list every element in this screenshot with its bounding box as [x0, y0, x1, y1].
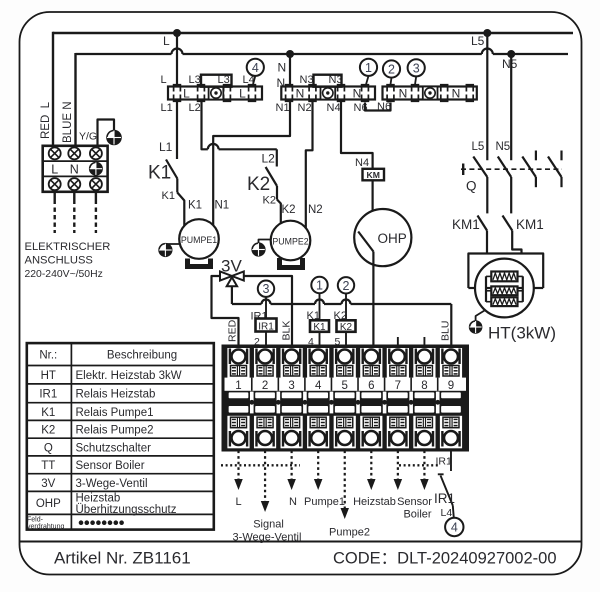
svg-text:BLUE N: BLUE N	[62, 101, 74, 143]
heater element bus bars	[485, 276, 487, 302]
legend table	[27, 343, 214, 529]
svg-text:Pumpe1: Pumpe1	[304, 496, 345, 508]
relay coil K2	[337, 320, 356, 332]
terminal 9 of strip X2	[440, 348, 462, 448]
svg-text:Q: Q	[44, 442, 53, 454]
svg-text:3: 3	[413, 61, 420, 75]
ground earth symbol at Y/G	[107, 131, 121, 145]
svg-text:IR1: IR1	[39, 389, 57, 401]
svg-text:N1: N1	[215, 200, 230, 212]
svg-text:N: N	[399, 87, 408, 101]
svg-text:Elektr. Heizstab 3kW: Elektr. Heizstab 3kW	[76, 370, 182, 382]
svg-text:7: 7	[395, 380, 401, 392]
wire K2 to PUMPE2	[277, 200, 281, 225]
svg-text:N5: N5	[502, 57, 518, 71]
wire L drop to strip	[176, 33, 178, 87]
svg-text:K2: K2	[340, 322, 353, 333]
svg-text:CODE：DLT-20240927002-00: CODE：DLT-20240927002-00	[333, 550, 557, 568]
wire HT feed loop	[468, 254, 543, 289]
ground symbol in block	[90, 163, 102, 175]
svg-text:OHP: OHP	[36, 498, 61, 510]
net circle 1 above N6	[360, 59, 377, 76]
connector circle in N strip A	[321, 87, 336, 100]
net circle 1 mid	[311, 277, 327, 293]
title block separator	[20, 541, 582, 543]
wire K1 coil to terminal 4	[319, 332, 321, 346]
svg-text:L5: L5	[471, 34, 485, 48]
contactor contact KM1 a	[478, 216, 488, 231]
svg-text:N1: N1	[276, 102, 290, 114]
wire RED L vertical from terminal block	[52, 32, 54, 146]
field lead from terminal 1	[237, 451, 239, 481]
svg-text:IR1: IR1	[434, 491, 455, 506]
relay contact IR1	[438, 473, 444, 475]
net circle 2 above strip B	[383, 60, 400, 77]
svg-text:ANSCHLUSS: ANSCHLUSS	[25, 255, 93, 267]
svg-text:Überhitzungsschutz: Überhitzungsschutz	[76, 504, 177, 516]
svg-text:1: 1	[316, 279, 323, 293]
svg-text:Relais Pumpe1: Relais Pumpe1	[76, 407, 154, 419]
relay contact K1	[166, 160, 177, 179]
breaker Q dashed linkage bar	[462, 164, 464, 176]
svg-text:1: 1	[365, 61, 372, 75]
ground earth at pump2	[252, 243, 265, 256]
OHP internal contact blade	[358, 232, 373, 252]
svg-text:Nr.:: Nr.:	[39, 350, 57, 362]
strip X2 junction dots between modules	[249, 392, 254, 414]
wire N2 from N strip to PUMPE2	[306, 100, 313, 229]
wire IR1 coil to terminal 2	[265, 332, 267, 346]
svg-text:Heizstab: Heizstab	[353, 496, 396, 508]
svg-text:Boiler: Boiler	[403, 509, 431, 521]
svg-text:L: L	[51, 162, 58, 176]
svg-text:Y/G: Y/G	[79, 131, 97, 143]
svg-text:BLK: BLK	[281, 321, 293, 341]
svg-text:verdrahtung: verdrahtung	[27, 524, 64, 531]
wire terminal 9 to IR1 contact	[450, 451, 452, 472]
svg-text:K1: K1	[148, 163, 171, 184]
svg-text:K1: K1	[41, 407, 55, 419]
net circle 4 above L4	[247, 59, 264, 76]
valve 3V bowtie symbol	[220, 272, 232, 281]
svg-text:TT: TT	[41, 460, 55, 472]
terminal strip N B	[383, 87, 477, 100]
svg-text:N2: N2	[308, 204, 323, 216]
terminal 7 of strip X2	[387, 348, 409, 448]
wire K1 to PUMPE1	[177, 193, 184, 227]
svg-text:KM1: KM1	[516, 217, 544, 232]
heater element 1	[486, 275, 491, 277]
svg-text:L2: L2	[262, 152, 276, 166]
svg-text:L: L	[163, 34, 170, 48]
svg-text:K2: K2	[247, 174, 270, 195]
svg-text:N4: N4	[355, 157, 369, 169]
jumper bridge on N strip A	[314, 75, 342, 87]
node junction N / N-strip	[286, 50, 294, 58]
heater element 3	[486, 301, 491, 303]
field wiring dotted bus right	[399, 464, 440, 466]
strip X2 number band	[225, 378, 467, 391]
thermal protector OHP	[354, 209, 411, 266]
stub above terminal 8	[423, 337, 425, 346]
wire L5 vertical	[486, 33, 488, 160]
connector circle in N strip B	[423, 87, 438, 100]
svg-text:4: 4	[315, 380, 322, 392]
svg-text:5: 5	[342, 380, 348, 392]
svg-text:IR1: IR1	[258, 321, 274, 332]
wire N4 from strip to KM coil	[341, 100, 373, 169]
svg-text:Sensor: Sensor	[397, 496, 432, 508]
svg-text:K2: K2	[263, 195, 276, 207]
svg-text:KM: KM	[367, 170, 380, 180]
svg-text:N: N	[278, 61, 287, 75]
svg-text:Sensor Boiler: Sensor Boiler	[76, 460, 145, 472]
svg-text:Pumpe2: Pumpe2	[329, 527, 370, 539]
wire BLUE N vertical from terminal block	[74, 53, 76, 146]
svg-text:N3: N3	[300, 74, 314, 86]
wire valve signal to BLU terminal 9	[231, 286, 233, 304]
svg-text:L2: L2	[189, 102, 201, 114]
terminal 2 of strip X2	[254, 348, 276, 448]
svg-text:RED L: RED L	[40, 101, 52, 139]
wire OHP to terminal 6	[372, 252, 374, 346]
field lead from terminal 8	[423, 451, 425, 481]
heater HT circle	[475, 259, 534, 318]
pump2 base bracket	[280, 258, 303, 268]
svg-text:K2: K2	[41, 425, 55, 437]
svg-text:L5: L5	[472, 141, 485, 153]
svg-text:K1: K1	[162, 190, 175, 202]
terminal 5 of strip X2	[334, 348, 356, 448]
net circle 2 mid	[338, 277, 354, 293]
svg-text:N: N	[70, 162, 79, 176]
jumper bridge on L strip	[201, 75, 232, 87]
svg-text:2: 2	[388, 63, 395, 77]
wire N5 vertical	[510, 54, 512, 160]
svg-text:N: N	[296, 87, 305, 101]
svg-text:L: L	[183, 87, 190, 101]
node junction N5	[507, 50, 515, 58]
breaker Q pole 4	[560, 151, 562, 161]
svg-text:Beschreibung: Beschreibung	[107, 350, 177, 362]
heater element 2	[486, 290, 491, 292]
svg-text:N5: N5	[496, 141, 511, 153]
wire KM to OHP	[372, 180, 374, 230]
net circle 3 above strip B	[408, 59, 425, 76]
terminal strip L (L1 L2 L3 L4)	[168, 87, 262, 100]
node junction L / L-strip	[173, 29, 181, 37]
svg-text:K2: K2	[282, 204, 296, 216]
legend table column divider	[70, 343, 72, 529]
svg-text:3: 3	[263, 282, 270, 296]
svg-text:2: 2	[343, 279, 350, 293]
svg-text:Artikel Nr. ZB1161: Artikel Nr. ZB1161	[54, 549, 191, 568]
svg-text:Relais Pumpe2: Relais Pumpe2	[76, 425, 154, 437]
wire pump1 to earth	[165, 243, 179, 246]
contactor contact KM1 b	[503, 216, 513, 231]
wire valve left port RED to terminal 1	[212, 276, 239, 346]
svg-text:3-Wege-Ventil: 3-Wege-Ventil	[233, 531, 302, 543]
svg-text:PUMPE2: PUMPE2	[272, 236, 308, 246]
legend field wiring dots	[79, 520, 124, 525]
svg-text:220-240V~/50Hz: 220-240V~/50Hz	[25, 269, 103, 280]
svg-text:L: L	[161, 74, 167, 86]
motor PUMPE1	[179, 219, 219, 259]
mains terminal block X1	[43, 146, 108, 192]
svg-text:Schutzschalter: Schutzschalter	[76, 442, 152, 454]
svg-text:K1: K1	[188, 200, 202, 212]
svg-text:Signal: Signal	[253, 519, 284, 531]
terminal 3 of strip X2	[281, 348, 303, 448]
relay coil IR1	[256, 319, 277, 332]
breaker Q pole 2 blade	[498, 157, 511, 178]
svg-text:9: 9	[448, 380, 454, 392]
svg-text:N4: N4	[327, 102, 341, 114]
relay contact K2	[266, 167, 277, 186]
svg-text:OHP: OHP	[378, 231, 407, 246]
svg-text:L: L	[235, 496, 241, 508]
node junction L5	[483, 29, 491, 37]
wire Q pole1 to KM1 a	[486, 177, 488, 213]
svg-text:Feld-: Feld-	[27, 517, 44, 524]
svg-text:4: 4	[451, 521, 458, 535]
net circle 3 mid	[258, 281, 274, 297]
svg-text:PUMPE1: PUMPE1	[181, 235, 217, 245]
contactor coil KM	[363, 169, 385, 181]
svg-text:N6: N6	[377, 101, 391, 113]
svg-text:L1: L1	[159, 140, 173, 154]
svg-text:8: 8	[421, 380, 427, 392]
svg-text:2: 2	[262, 380, 268, 392]
wire pump2 to earth	[259, 240, 272, 244]
wire Y/G with hook to earth	[98, 120, 115, 147]
field wiring dashed leads	[54, 193, 56, 205]
svg-text:4: 4	[252, 61, 259, 75]
svg-text:L4: L4	[441, 507, 453, 519]
svg-text:N: N	[289, 496, 297, 508]
field lead from terminal 4	[317, 451, 319, 481]
svg-text:HT: HT	[41, 370, 56, 382]
field wiring dotted bus left	[221, 464, 300, 466]
svg-text:N: N	[452, 87, 461, 101]
svg-text:N: N	[353, 87, 362, 101]
svg-text:3: 3	[288, 380, 294, 392]
svg-text:L3: L3	[189, 74, 201, 86]
ground earth at pump1	[159, 244, 172, 257]
wire L1 from strip to K1	[176, 100, 178, 160]
screw terminal row bottom	[49, 178, 61, 190]
motor PUMPE2	[271, 221, 311, 261]
field lead from terminal 3	[291, 451, 293, 481]
field lead from terminal 5	[344, 451, 346, 510]
field lead from terminal 6	[370, 451, 372, 481]
wire L2 from strip to K2 with hop over N1	[202, 100, 208, 150]
terminal 8 of strip X2	[413, 348, 435, 448]
wire N horizontal with hops	[76, 53, 172, 55]
jumper N6 between strips	[365, 103, 391, 111]
svg-text:L: L	[239, 87, 246, 101]
breaker Q pole 3	[535, 151, 537, 161]
stub above terminal 7	[397, 337, 399, 346]
svg-text:1: 1	[235, 380, 241, 392]
svg-text:KM1: KM1	[452, 217, 480, 232]
terminal 6 of strip X2	[360, 348, 382, 448]
svg-text:Relais Heizstab: Relais Heizstab	[76, 389, 156, 401]
wire N drop to strip	[289, 54, 291, 87]
svg-text:3V: 3V	[41, 478, 55, 490]
screw terminal row top	[49, 147, 61, 159]
wire valve right port BLK to terminal 3	[244, 276, 292, 346]
wire Q pole2 to KM1 b	[510, 177, 512, 213]
terminal 1 of strip X2	[227, 348, 249, 448]
terminal strip X2 body	[223, 346, 469, 451]
wire HT to earth	[476, 311, 485, 322]
svg-text:L1: L1	[161, 102, 173, 114]
wire N1 from N strip to PUMPE1	[213, 100, 290, 228]
wire K2 coil to terminal 5	[345, 332, 347, 346]
connector circle in L strip	[209, 87, 224, 100]
svg-text:N2: N2	[298, 102, 312, 114]
svg-text:Heizstab: Heizstab	[76, 493, 121, 505]
pump1 base bracket	[188, 259, 211, 267]
field lead from terminal 7	[397, 451, 399, 481]
svg-text:6: 6	[368, 380, 374, 392]
field lead from terminal 2	[264, 451, 266, 503]
relay coil K1	[310, 320, 329, 332]
svg-text:BLU: BLU	[440, 321, 452, 341]
svg-text:HT(3kW): HT(3kW)	[488, 324, 556, 343]
breaker Q pole 1 blade	[473, 157, 487, 178]
svg-text:RED: RED	[227, 319, 239, 342]
svg-text:3-Wege-Ventil: 3-Wege-Ventil	[76, 478, 148, 490]
svg-text:Q: Q	[466, 179, 477, 194]
wire L top horizontal	[53, 32, 573, 34]
net circle 4 bottom	[445, 518, 463, 536]
svg-text:ELEKTRISCHER: ELEKTRISCHER	[25, 241, 111, 253]
svg-text:IR1: IR1	[436, 456, 453, 468]
svg-text:K1: K1	[313, 322, 326, 333]
terminal 4 of strip X2	[307, 348, 329, 448]
ground earth at HT	[470, 321, 482, 333]
terminal strip N A (N1 N2 N4 N6)	[281, 87, 375, 100]
